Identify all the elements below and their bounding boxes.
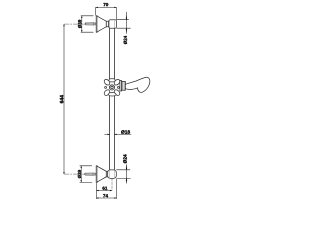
dimension 61 line: [97, 190, 112, 192]
rail axis hidden centerline below bottom block: [111, 179, 113, 191]
holder nut: [122, 81, 126, 90]
dimension text 74: [103, 194, 108, 197]
rail through top block: [109, 20, 111, 28]
dimension text Ø39 top: [78, 20, 81, 28]
bottom mounting screw: [85, 173, 96, 175]
dimension Ø24 top extension lines: [117, 12, 131, 34]
holder washer: [120, 80, 122, 91]
dimension Ø18 leader: [105, 133, 131, 135]
cross handle petal NW: [103, 78, 111, 86]
dimension Ø24 top line with outside arrows: [125, 12, 127, 34]
rail through bottom block: [109, 170, 111, 178]
dimension 74 line: [97, 197, 117, 199]
bottom bracket cone: [97, 166, 106, 182]
dimension 70 right extension line: [116, 7, 118, 19]
cross handle side bump right: [117, 86, 119, 88]
top bracket neck: [106, 21, 108, 27]
bottom bracket wall flange: [96, 166, 97, 183]
top bracket wall flange: [96, 16, 97, 32]
cross handle side bump left: [105, 86, 107, 88]
dimension Ø39 top line: [81, 16, 83, 32]
wall face extension line bottom: [96, 179, 116, 199]
cross handle petal NE: [113, 78, 121, 86]
dimension text Ø39 bottom: [78, 170, 81, 178]
cross handle petal SE: [113, 89, 121, 97]
cross handle boss: [109, 85, 114, 90]
bottom centerline: [64, 173, 85, 175]
dimension text Ø18: [121, 130, 130, 134]
holder handle lever: [125, 77, 150, 92]
dimension text Ø24 bottom: [123, 154, 127, 163]
bottom bracket neck: [106, 171, 107, 177]
dimension Ø39 bottom line: [80, 166, 82, 182]
bottom bracket slider block: [108, 170, 117, 179]
dimension Ø24 bottom extension lines: [117, 165, 131, 184]
slider lower collar: [108, 93, 116, 97]
cross handle boss inner: [111, 86, 113, 88]
top mounting screw: [85, 23, 96, 25]
dimension 644 line: [63, 25, 65, 174]
cross handle petal SW: [103, 89, 111, 97]
top bracket slider block: [109, 20, 117, 28]
dimension text 61: [102, 187, 107, 190]
slider upper collar: [108, 79, 116, 82]
dimension text 644: [60, 95, 64, 103]
rail lower segment: [109, 96, 111, 170]
dimension Ø39 top extension lines: [81, 16, 93, 32]
rail upper segment: [109, 28, 111, 79]
dimension Ø24 bottom line with outside arrows: [126, 165, 128, 184]
dimension 70 left extension line: [95, 7, 97, 15]
top centerline: [64, 23, 85, 25]
block edge extension line bottom: [116, 179, 118, 199]
dimension text Ø24 top: [124, 36, 127, 44]
top bracket cone: [97, 16, 106, 32]
dimension Ø39 bottom extension lines: [80, 166, 92, 183]
dimension 70 line: [96, 7, 117, 19]
dimension text 70: [103, 3, 108, 6]
